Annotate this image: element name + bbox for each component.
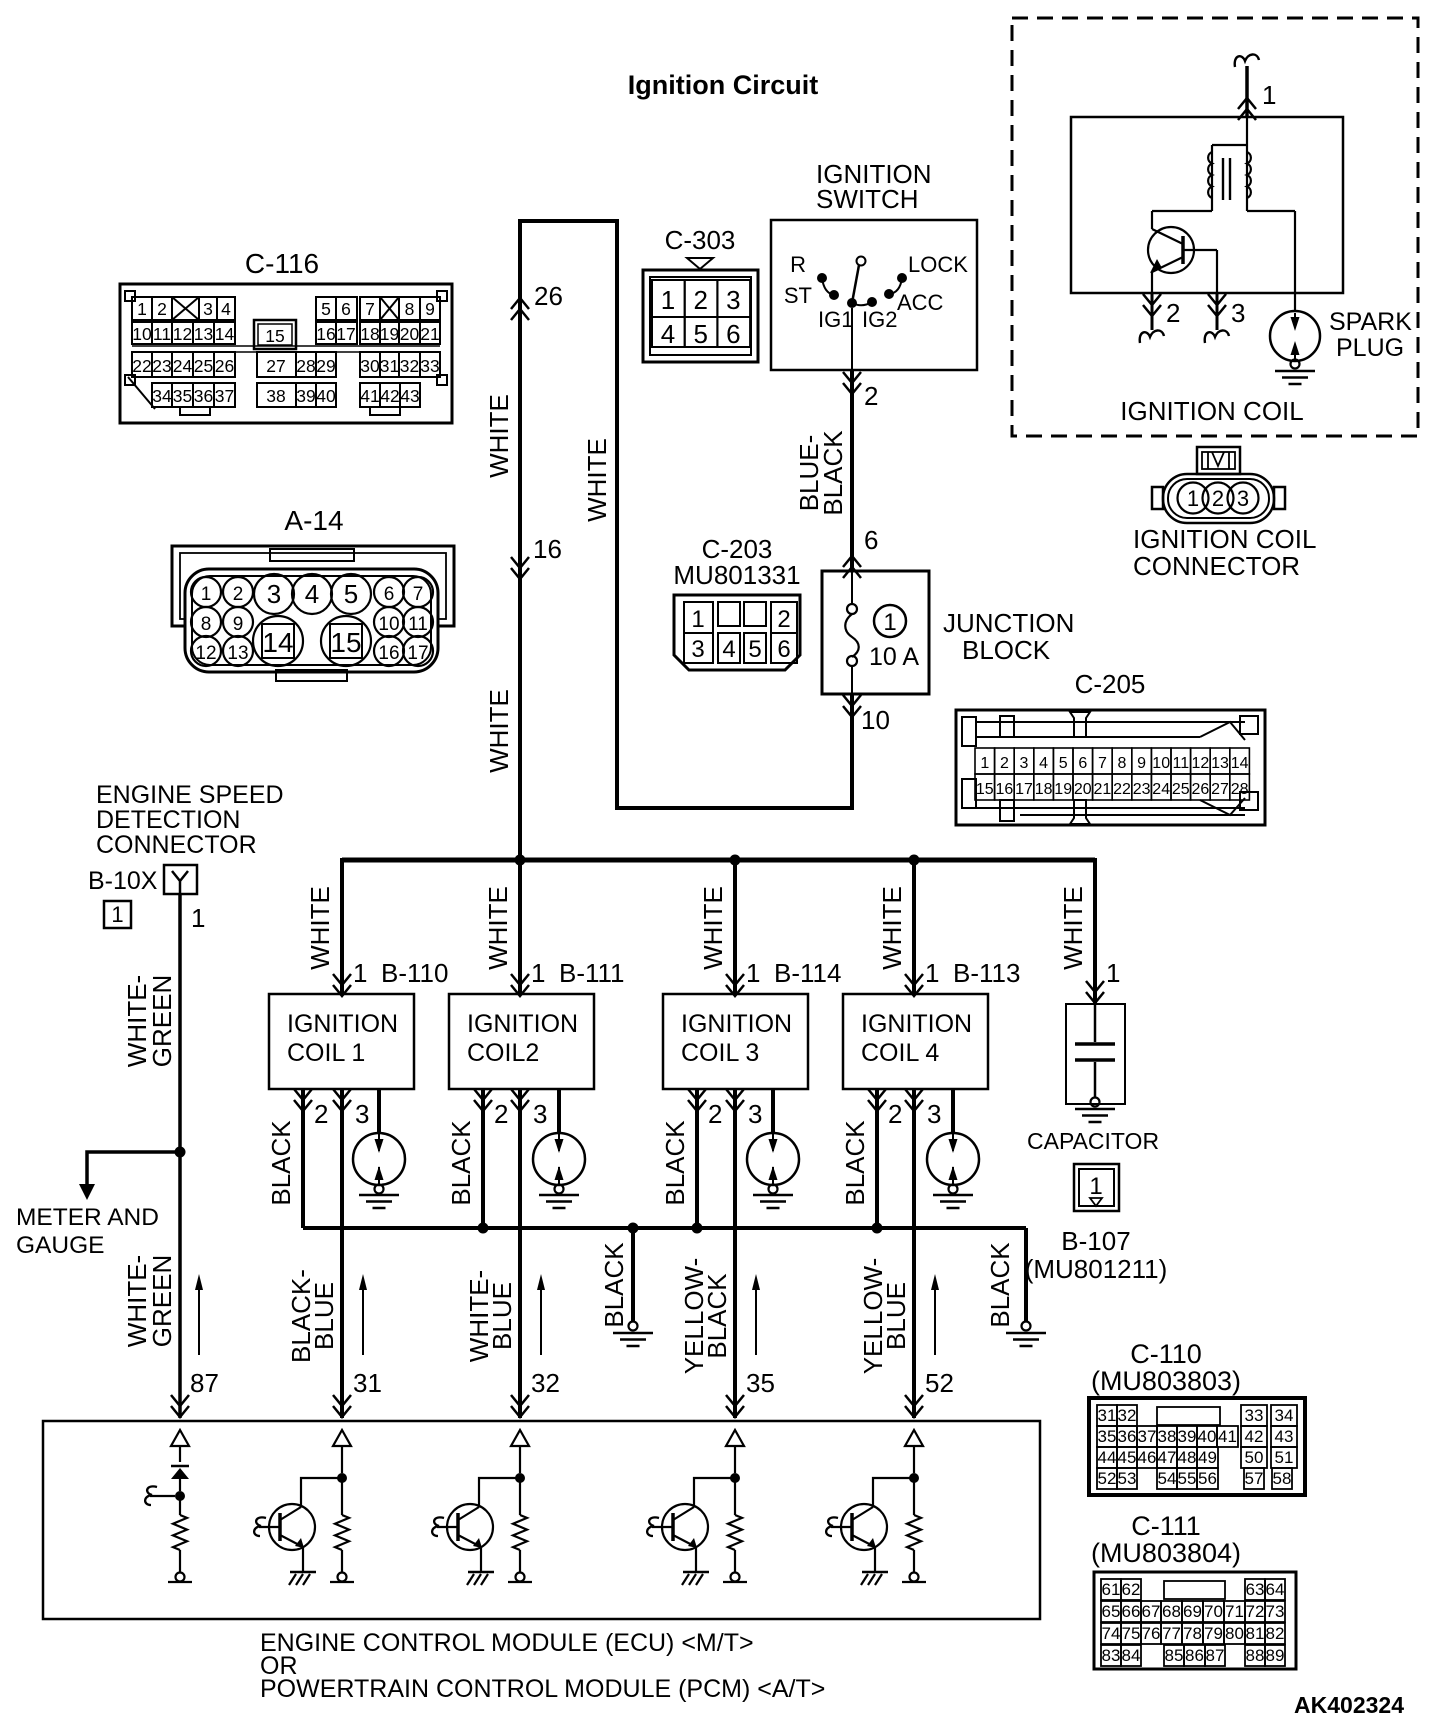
wire white-green from B-10X <box>178 894 182 1418</box>
svg-text:BLACK: BLACK <box>702 1273 732 1359</box>
chassis ground Q3 <box>683 1571 709 1574</box>
svg-text:1: 1 <box>883 609 896 636</box>
svg-text:POWERTRAIN CONTROL MODULE (PCM: POWERTRAIN CONTROL MODULE (PCM) <A/T> <box>260 1675 825 1703</box>
svg-text:12: 12 <box>195 643 216 664</box>
svg-text:82: 82 <box>1266 1624 1285 1643</box>
svg-text:5: 5 <box>1059 755 1068 772</box>
node pin 2 ignition coil exit <box>1151 293 1154 330</box>
wire ECU collector link 32 <box>479 1478 520 1507</box>
svg-text:4: 4 <box>221 299 231 319</box>
junction dot bus-coil4 <box>909 855 920 866</box>
ECU internal terminal 32 <box>516 1573 525 1582</box>
wire black ground drop left <box>631 1228 635 1321</box>
svg-text:2: 2 <box>1000 755 1009 772</box>
connector B-10X box with Y symbol <box>164 865 197 894</box>
transistor Q1 <box>269 1504 315 1550</box>
junction dot black bus coil4 <box>872 1223 883 1234</box>
svg-text:ENGINE SPEED: ENGINE SPEED <box>96 781 284 809</box>
svg-text:CONNECTOR: CONNECTOR <box>96 831 257 859</box>
svg-text:CONNECTOR: CONNECTOR <box>1133 551 1300 581</box>
ECU input arrow pin 35 <box>726 1430 744 1446</box>
wire ECU base 31 with break <box>259 1526 280 1528</box>
svg-text:COIL 3: COIL 3 <box>681 1039 759 1067</box>
ignition coil 2 pin 3 exit <box>511 1089 529 1100</box>
connector C-303 body <box>643 270 758 362</box>
svg-text:GREEN: GREEN <box>147 975 177 1067</box>
connector B-107 marker box <box>1074 1164 1119 1211</box>
node pin 26 in-line connector <box>511 298 529 309</box>
svg-text:DETECTION: DETECTION <box>96 806 240 834</box>
svg-text:SWITCH: SWITCH <box>816 184 919 214</box>
connector C-111 body <box>1094 1572 1296 1669</box>
junction dot black bus coil2 <box>478 1223 489 1234</box>
svg-text:BLACK: BLACK <box>446 1120 476 1206</box>
ECU input arrow pin 87 <box>171 1430 189 1446</box>
current direction arrow 87 <box>198 1278 200 1355</box>
junction block box <box>822 571 929 694</box>
svg-text:1: 1 <box>1089 1173 1102 1200</box>
svg-text:B-107: B-107 <box>1061 1226 1130 1256</box>
ignition coil 1 pin 2 exit <box>294 1089 312 1100</box>
svg-text:45: 45 <box>1118 1448 1137 1467</box>
wire white main vertical <box>518 221 522 860</box>
wire white drop to ignition coil 2 <box>518 858 522 994</box>
svg-text:BLUE: BLUE <box>487 1282 517 1350</box>
ignition coil assembly dashed box <box>1012 18 1418 436</box>
svg-text:IGNITION COIL: IGNITION COIL <box>1133 524 1316 554</box>
svg-text:3: 3 <box>267 579 281 609</box>
svg-text:WHITE: WHITE <box>484 394 514 478</box>
spark plug symbol <box>1270 311 1320 361</box>
svg-text:IG2: IG2 <box>862 307 897 332</box>
ECU internal terminal 31 <box>338 1573 347 1582</box>
svg-text:35: 35 <box>746 1368 775 1398</box>
svg-text:48: 48 <box>1178 1448 1197 1467</box>
svg-text:26: 26 <box>1192 781 1210 798</box>
svg-text:89: 89 <box>1266 1646 1285 1665</box>
svg-text:BLUE: BLUE <box>881 1282 911 1350</box>
svg-text:33: 33 <box>420 356 439 376</box>
svg-text:18: 18 <box>360 324 379 344</box>
svg-text:2: 2 <box>693 285 707 315</box>
svg-text:31: 31 <box>380 356 399 376</box>
svg-text:LOCK: LOCK <box>908 252 968 277</box>
ignition coil 2 output symbol with ground <box>533 1133 585 1185</box>
svg-text:IG1: IG1 <box>818 307 853 332</box>
svg-text:Ignition Circuit: Ignition Circuit <box>628 70 818 100</box>
svg-text:BLACK: BLACK <box>599 1242 629 1328</box>
node pin 2 connector below switch <box>843 372 861 383</box>
svg-text:49: 49 <box>1198 1448 1217 1467</box>
svg-text:2: 2 <box>864 381 878 411</box>
svg-text:6: 6 <box>777 636 790 663</box>
svg-text:24: 24 <box>1152 781 1170 798</box>
svg-text:C-116: C-116 <box>245 248 319 279</box>
svg-text:8: 8 <box>405 299 415 319</box>
wire ECU branch 35 <box>734 1446 736 1473</box>
svg-text:23: 23 <box>152 356 171 376</box>
svg-text:87: 87 <box>190 1368 219 1398</box>
svg-text:10: 10 <box>861 705 890 735</box>
ignition coil 3 output symbol with ground <box>747 1133 799 1185</box>
svg-text:6: 6 <box>726 319 740 349</box>
wire ECU branch 31 <box>341 1446 343 1473</box>
svg-text:7: 7 <box>413 584 424 605</box>
connector C-303 marker triangle <box>687 258 713 269</box>
svg-text:2: 2 <box>777 606 790 633</box>
wire ECU branch 32 <box>519 1446 521 1473</box>
svg-text:57: 57 <box>1245 1469 1264 1488</box>
wire primary bottom to transistor <box>1211 198 1213 211</box>
svg-text:47: 47 <box>1158 1448 1177 1467</box>
svg-text:58: 58 <box>1273 1469 1292 1488</box>
wire YELLOW-BLACK coil 3 pin3 to ECU pin 35 <box>733 1089 737 1418</box>
ignition coil 3 pin 3 exit <box>726 1089 744 1100</box>
svg-text:3: 3 <box>748 1099 762 1129</box>
wire ECU collector link 31 <box>301 1478 342 1507</box>
svg-text:72: 72 <box>1246 1602 1265 1621</box>
svg-text:WHITE: WHITE <box>698 886 728 970</box>
svg-text:4: 4 <box>722 636 735 663</box>
node pin 16 in-line connector <box>511 557 529 568</box>
svg-text:23: 23 <box>1133 781 1151 798</box>
junction dot ECU 32 <box>515 1473 525 1483</box>
junction dot black bus coil3 <box>692 1223 703 1234</box>
ignition coil 3 pin 2 exit <box>688 1089 706 1100</box>
svg-text:WHITE: WHITE <box>484 689 514 773</box>
svg-text:3: 3 <box>1020 755 1029 772</box>
svg-text:METER AND: METER AND <box>16 1204 159 1231</box>
wire ECU emitter 31 <box>302 1547 304 1572</box>
svg-text:19: 19 <box>1054 781 1072 798</box>
svg-text:11: 11 <box>1172 755 1189 772</box>
junction dot ECU 52 <box>909 1473 919 1483</box>
ignition coil 4 pin 3 exit <box>905 1089 923 1100</box>
node pin 10 junction block exit <box>843 695 861 706</box>
svg-text:75: 75 <box>1122 1624 1141 1643</box>
svg-text:41: 41 <box>360 386 379 406</box>
svg-text:PLUG: PLUG <box>1336 334 1404 362</box>
svg-text:61: 61 <box>1102 1580 1121 1599</box>
svg-text:73: 73 <box>1266 1602 1285 1621</box>
resistor R5 <box>913 1478 915 1515</box>
ignition coil 1 output symbol with ground <box>353 1133 405 1185</box>
svg-text:1: 1 <box>1187 486 1199 511</box>
node pin 1 ignition coil <box>1238 98 1256 109</box>
svg-text:46: 46 <box>1138 1448 1157 1467</box>
wire black coil 2 pin2 to ground bus <box>481 1089 485 1228</box>
svg-text:15: 15 <box>976 781 994 798</box>
wire black coil 1 pin2 to ground bus <box>301 1089 305 1228</box>
svg-text:16: 16 <box>316 324 335 344</box>
chassis ground Q1 <box>290 1571 316 1574</box>
svg-text:43: 43 <box>400 386 419 406</box>
junction dot black bus ground drop <box>628 1223 639 1234</box>
chassis ground Q4 <box>862 1571 888 1574</box>
transistor Q4 <box>841 1504 887 1550</box>
resistor R4 <box>734 1478 736 1515</box>
svg-text:35: 35 <box>1098 1427 1117 1446</box>
svg-text:37: 37 <box>1138 1427 1157 1446</box>
svg-text:1: 1 <box>980 755 989 772</box>
current direction arrow 32 <box>540 1278 542 1355</box>
svg-text:16: 16 <box>378 643 399 664</box>
svg-text:SPARK: SPARK <box>1329 308 1412 336</box>
current direction arrow 52 <box>934 1278 936 1355</box>
svg-text:4: 4 <box>305 579 319 609</box>
wire ECU branch 87 <box>179 1446 181 1462</box>
ignition coil 4 output symbol with ground <box>927 1133 979 1185</box>
wire ECU 87 internal left with break <box>150 1495 175 1497</box>
svg-text:2: 2 <box>708 1099 722 1129</box>
svg-text:19: 19 <box>380 324 399 344</box>
svg-text:67: 67 <box>1142 1602 1161 1621</box>
svg-text:3: 3 <box>1237 486 1249 511</box>
svg-text:(MU803803): (MU803803) <box>1091 1366 1241 1396</box>
svg-text:C-303: C-303 <box>665 225 736 255</box>
svg-text:36: 36 <box>194 386 213 406</box>
wire white top bridge <box>518 219 619 223</box>
svg-text:25: 25 <box>194 356 213 376</box>
resistor R3 <box>519 1478 521 1515</box>
junction dot ECU 31 <box>337 1473 347 1483</box>
capacitor C1 body <box>1066 1004 1125 1104</box>
svg-text:ACC: ACC <box>897 290 944 315</box>
svg-text:IGNITION: IGNITION <box>287 1010 398 1038</box>
svg-text:MU801331: MU801331 <box>673 560 800 590</box>
ignition coil 4 box <box>843 994 988 1089</box>
wire black ground bus <box>301 1089 305 1228</box>
svg-text:2: 2 <box>157 299 167 319</box>
svg-text:4: 4 <box>1039 755 1048 772</box>
svg-text:GAUGE: GAUGE <box>16 1232 105 1259</box>
transformer T1 core <box>1222 158 1224 200</box>
svg-text:2: 2 <box>888 1099 902 1129</box>
current direction arrow 31 <box>362 1278 364 1355</box>
svg-text:33: 33 <box>1245 1406 1264 1425</box>
ignition coil 2 box <box>449 994 594 1089</box>
svg-text:C-110: C-110 <box>1130 1339 1202 1369</box>
svg-text:5: 5 <box>321 299 331 319</box>
svg-text:34: 34 <box>152 386 172 406</box>
ECU box <box>43 1421 1040 1619</box>
svg-text:37: 37 <box>215 386 234 406</box>
svg-text:B-113: B-113 <box>953 958 1020 988</box>
wire black coil 3 pin2 to ground bus <box>695 1089 699 1228</box>
svg-text:IGNITION: IGNITION <box>861 1010 972 1038</box>
wire ECU branch 52 <box>913 1446 915 1473</box>
svg-text:68: 68 <box>1162 1602 1181 1621</box>
svg-text:79: 79 <box>1204 1624 1223 1643</box>
svg-text:BLACK: BLACK <box>840 1120 870 1206</box>
ECU internal terminal 52 <box>910 1573 919 1582</box>
svg-text:17: 17 <box>1015 781 1033 798</box>
transistor Q0 ignition coil <box>1148 227 1194 273</box>
ground right drop <box>1022 1322 1031 1331</box>
svg-text:1: 1 <box>661 285 675 315</box>
svg-text:62: 62 <box>1122 1580 1141 1599</box>
svg-text:41: 41 <box>1218 1427 1237 1446</box>
wire coil 3 high tension output <box>771 1089 775 1133</box>
svg-text:WHITE: WHITE <box>582 438 612 522</box>
svg-text:10 A: 10 A <box>869 643 919 671</box>
ignition coil 1 pin 3 exit <box>333 1089 351 1100</box>
svg-text:85: 85 <box>1165 1646 1184 1665</box>
svg-text:3: 3 <box>355 1099 369 1129</box>
svg-text:2: 2 <box>314 1099 328 1129</box>
wire supply into ignition coil with break <box>1235 54 1259 67</box>
svg-text:31: 31 <box>353 1368 382 1398</box>
junction dot ECU 87 <box>175 1491 185 1501</box>
svg-text:20: 20 <box>1074 781 1092 798</box>
svg-text:9: 9 <box>1137 755 1146 772</box>
svg-text:WHITE: WHITE <box>877 886 907 970</box>
wire white drop to capacitor <box>1093 858 1097 1004</box>
svg-text:9: 9 <box>233 614 244 635</box>
svg-text:12: 12 <box>173 324 192 344</box>
svg-text:36: 36 <box>1118 1427 1137 1446</box>
svg-text:77: 77 <box>1162 1624 1181 1643</box>
wire white drop to ignition coil 1 <box>340 858 344 994</box>
svg-text:53: 53 <box>1118 1469 1137 1488</box>
svg-text:B-114: B-114 <box>774 958 841 988</box>
wire ECU collector link 35 <box>694 1478 735 1507</box>
svg-text:44: 44 <box>1098 1448 1117 1467</box>
svg-text:2: 2 <box>1212 486 1224 511</box>
svg-text:(MU803804): (MU803804) <box>1091 1538 1241 1568</box>
svg-text:1: 1 <box>531 958 545 988</box>
connector A-14 body <box>172 546 454 626</box>
svg-text:43: 43 <box>1275 1427 1294 1446</box>
svg-text:10: 10 <box>1152 755 1170 772</box>
svg-text:22: 22 <box>132 356 151 376</box>
svg-text:13: 13 <box>227 643 248 664</box>
svg-text:3: 3 <box>203 299 213 319</box>
connector C-116 body <box>120 284 452 423</box>
wire ECU base 35 with break <box>652 1526 673 1528</box>
svg-text:5: 5 <box>693 319 707 349</box>
fuse 1 10A <box>851 571 853 604</box>
svg-text:24: 24 <box>173 356 193 376</box>
wire emitter to pin 2 <box>1151 271 1153 293</box>
svg-text:2: 2 <box>494 1099 508 1129</box>
svg-text:7: 7 <box>1098 755 1107 772</box>
connector C-110 body <box>1089 1398 1305 1495</box>
svg-text:IGNITION COIL: IGNITION COIL <box>1120 396 1303 426</box>
svg-text:B-10X: B-10X <box>88 867 158 895</box>
svg-text:2: 2 <box>233 584 244 605</box>
svg-text:1: 1 <box>746 958 760 988</box>
svg-text:6: 6 <box>864 525 878 555</box>
wire base to pin 3 <box>1183 249 1217 251</box>
ground left drop <box>629 1322 638 1331</box>
svg-text:3: 3 <box>726 285 740 315</box>
node pin 3 ignition coil exit <box>1216 293 1219 330</box>
svg-text:IGNITION: IGNITION <box>467 1010 578 1038</box>
svg-text:29: 29 <box>316 356 335 376</box>
svg-text:14: 14 <box>215 324 235 344</box>
svg-text:26: 26 <box>534 281 563 311</box>
wire YELLOW-BLUE coil 4 pin3 to ECU pin 52 <box>912 1089 916 1418</box>
ignition switch box <box>771 220 977 370</box>
svg-text:32: 32 <box>400 356 419 376</box>
ignition coil 2 pin 2 exit <box>474 1089 492 1100</box>
wire WHITE-BLUE coil 2 pin3 to ECU pin 32 <box>518 1089 522 1418</box>
svg-text:4: 4 <box>661 319 675 349</box>
svg-text:51: 51 <box>1275 1448 1294 1467</box>
wire black ground drop right <box>1024 1228 1028 1321</box>
transformer T1 primary winding <box>1208 152 1212 198</box>
svg-text:6: 6 <box>341 299 351 319</box>
junction dot meter branch <box>175 1147 186 1158</box>
svg-text:30: 30 <box>360 356 380 376</box>
connector C-203 body <box>674 595 800 670</box>
svg-text:34: 34 <box>1275 1406 1294 1425</box>
svg-text:16: 16 <box>533 534 562 564</box>
wire white horizontal to junction block <box>615 806 852 810</box>
svg-text:13: 13 <box>1211 755 1229 772</box>
svg-text:6: 6 <box>1078 755 1087 772</box>
svg-text:27: 27 <box>266 356 285 376</box>
svg-text:10: 10 <box>132 324 152 344</box>
svg-text:1: 1 <box>353 958 367 988</box>
svg-text:3: 3 <box>533 1099 547 1129</box>
wire black coil 4 pin2 to ground bus <box>875 1089 879 1228</box>
svg-text:69: 69 <box>1183 1602 1202 1621</box>
svg-text:15: 15 <box>265 326 284 346</box>
svg-text:17: 17 <box>407 643 428 664</box>
svg-text:25: 25 <box>1172 781 1190 798</box>
svg-text:BLOCK: BLOCK <box>962 635 1051 665</box>
wire ECU emitter 52 <box>874 1547 876 1572</box>
svg-text:28: 28 <box>296 356 315 376</box>
chassis ground Q2 <box>468 1571 494 1574</box>
wire ignition switch IG1 to output <box>851 308 853 370</box>
svg-text:CAPACITOR: CAPACITOR <box>1027 1128 1159 1154</box>
svg-text:AK402324: AK402324 <box>1294 1692 1404 1718</box>
svg-text:65: 65 <box>1102 1602 1121 1621</box>
svg-text:80: 80 <box>1225 1624 1244 1643</box>
junction dot bus-coil2 <box>515 855 526 866</box>
svg-text:8: 8 <box>201 614 212 635</box>
ECU input arrow pin 31 <box>333 1430 351 1446</box>
svg-text:10: 10 <box>378 614 399 635</box>
svg-text:64: 64 <box>1266 1580 1285 1599</box>
svg-text:87: 87 <box>1206 1646 1225 1665</box>
svg-text:2: 2 <box>1166 298 1180 328</box>
svg-text:WHITE: WHITE <box>305 886 335 970</box>
svg-text:16: 16 <box>996 781 1014 798</box>
svg-text:C-111: C-111 <box>1131 1511 1201 1541</box>
svg-text:86: 86 <box>1185 1646 1204 1665</box>
svg-text:COIL 1: COIL 1 <box>287 1039 365 1067</box>
svg-text:BLACK: BLACK <box>818 430 848 516</box>
svg-text:39: 39 <box>296 386 315 406</box>
svg-text:B-110: B-110 <box>381 958 448 988</box>
ignition coil 4 pin 2 exit <box>868 1089 886 1100</box>
ECU input arrow pin 52 <box>905 1430 923 1446</box>
ECU input arrow pin 32 <box>511 1430 529 1446</box>
svg-text:22: 22 <box>1113 781 1131 798</box>
svg-text:70: 70 <box>1204 1602 1223 1621</box>
wire blue-black switch output <box>850 370 854 571</box>
ignition coil 3 box <box>663 994 808 1089</box>
svg-text:52: 52 <box>925 1368 954 1398</box>
wire white second vertical <box>615 221 619 810</box>
svg-text:27: 27 <box>1211 781 1229 798</box>
wire white drop to ignition coil 4 <box>912 858 916 994</box>
svg-text:BLACK: BLACK <box>660 1120 690 1206</box>
